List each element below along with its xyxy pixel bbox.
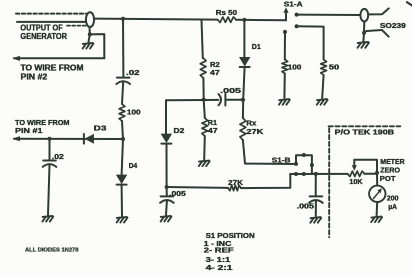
switch S1-A wiper arm: [285, 12, 287, 20]
wire - cap line right: [225, 99, 244, 101]
boundary dashed box top: [329, 125, 401, 127]
wire - main top rail left: [94, 19, 218, 20]
wire - D1 top lead: [243, 20, 245, 57]
label 100 (R3): [127, 110, 141, 117]
resistor Rx 27K: [240, 118, 246, 140]
label 50 (R5): [329, 64, 339, 71]
node meter rail dot c: [314, 172, 318, 176]
wire - C1 to R3: [122, 82, 123, 104]
label 27K (R6): [228, 180, 243, 187]
diode D2: [161, 134, 171, 144]
svg-text:10K: 10K: [349, 179, 362, 186]
node junction cap line / D1 column: [241, 98, 245, 102]
resistor R3 100: [119, 104, 125, 121]
label D4: [129, 163, 137, 170]
wire - connector shell drop: [89, 27, 91, 34]
svg-text:4- 2:1: 4- 2:1: [206, 265, 233, 272]
wire - SO239 shell drop: [363, 22, 365, 33]
ground - R4: [279, 99, 290, 105]
label 10K: [349, 179, 362, 186]
ground - generator shell: [83, 43, 94, 49]
svg-text:.02: .02: [52, 154, 64, 161]
wire - D2 to C3 junction: [166, 144, 168, 187]
wire - C3 to ground: [165, 201, 168, 215]
svg-text:METER: METER: [380, 159, 404, 166]
wire - contact1 to SO239: [297, 14, 361, 16]
ground - R1: [199, 161, 210, 167]
label 100 (R4): [288, 64, 302, 71]
wire - Rx bottom bend to S1-B: [243, 140, 296, 164]
switch S1-B feed contact: [294, 162, 298, 166]
capacitor C5 .005: [309, 196, 323, 202]
ground - R5: [317, 99, 328, 105]
node junction D2 / C3 / 27K line: [165, 185, 169, 189]
node meter rail dot a: [294, 172, 298, 176]
label ALL DIODES 1N278: [25, 248, 79, 254]
svg-text:TO WIRE FROM: TO WIRE FROM: [21, 64, 84, 73]
svg-text:D2: D2: [174, 128, 185, 135]
label 47 (R2): [210, 70, 220, 77]
wire - shell to ground stub: [89, 34, 90, 42]
wire - generator output line: [17, 21, 86, 23]
arrow - pot wiper arrowhead: [352, 165, 357, 171]
wire - TO WIRE FROM PIN 2 line: [14, 57, 104, 59]
svg-text:D4: D4: [129, 163, 137, 170]
arrow - pin2 line left arrowhead: [12, 56, 20, 61]
node SO239 shell: [362, 31, 366, 35]
label 27K (Rx): [246, 129, 263, 136]
mark top-right scan tick: [407, 2, 412, 5]
label TO WIRE FROM (pin2): [21, 64, 84, 73]
node junction top rail at D1 column: [242, 18, 246, 22]
meter M1 body: [369, 186, 385, 202]
svg-text:PIN #2: PIN #2: [21, 73, 48, 82]
label R1: [208, 120, 217, 127]
ground - D4: [117, 217, 128, 223]
resistor R6 27K: [228, 185, 241, 190]
wire - Rx top lead: [242, 100, 244, 118]
resistor R1 47: [202, 118, 208, 136]
wire - D4 to ground: [121, 185, 123, 216]
switch S1-B out contact: [310, 163, 314, 167]
svg-text:P/O TEK 190B: P/O TEK 190B: [335, 130, 394, 137]
wire - 27K line left: [167, 186, 228, 189]
connector P1 generator plug: [86, 12, 94, 27]
label uA: [388, 204, 397, 211]
label PIN #2: [21, 73, 48, 82]
wire - R1 top lead: [204, 100, 205, 118]
node connector shell: [88, 32, 92, 36]
switch S1-A contact 1: [295, 13, 299, 17]
wire - R3 to pin1 junction: [122, 121, 123, 139]
svg-text:SO239: SO239: [380, 23, 406, 30]
svg-text:µA: µA: [388, 204, 397, 211]
ground - meter: [371, 217, 382, 223]
wire - coax shield dashed line: [16, 13, 86, 15]
ground - C5: [310, 217, 321, 223]
svg-text:D3: D3: [94, 125, 107, 132]
resistor R5 50: [321, 60, 327, 76]
label Rs 50: [216, 10, 237, 17]
wire - S1-B contact drop: [311, 165, 313, 174]
svg-text:Rs 50: Rs 50: [216, 10, 237, 17]
svg-text:50: 50: [329, 64, 339, 71]
svg-text:47: 47: [210, 70, 220, 77]
switch S1-B bracket: [296, 155, 312, 165]
svg-text:27K: 27K: [228, 180, 243, 187]
label D1: [252, 44, 261, 51]
label D3: [94, 125, 107, 132]
wire - C2 column upper: [49, 139, 51, 161]
label .02 (C2): [52, 154, 64, 161]
label PIN #1: [15, 126, 43, 135]
node junction pin1 / C2 column: [48, 137, 52, 141]
node junction R2/R1/.005: [202, 98, 206, 102]
svg-text:PIN #1: PIN #1: [15, 126, 43, 135]
wire - meter top lead: [376, 173, 378, 186]
wire - R2 bottom lead: [202, 78, 204, 100]
node pot output junction: [375, 171, 379, 175]
label S1-A: [284, 1, 303, 8]
svg-text:47: 47: [208, 128, 218, 135]
diode D4: [117, 175, 127, 185]
label D2: [174, 128, 185, 135]
label METER: [380, 159, 404, 166]
label OUTPUT OF: [20, 23, 62, 32]
wire - main top rail right: [236, 19, 286, 22]
wire - C3 stub: [166, 187, 168, 196]
wire - contact2 to 50 ohm: [297, 26, 324, 59]
svg-text:27K: 27K: [246, 129, 263, 136]
wire - shell to pin2 bend: [90, 34, 105, 58]
node meter rail dot b: [302, 172, 306, 176]
svg-text:S1 POSITION: S1 POSITION: [206, 233, 255, 240]
wire - C1 column upper: [122, 19, 124, 78]
svg-text:ZERO: ZERO: [380, 168, 400, 175]
svg-text:100: 100: [127, 110, 141, 117]
label P/O TEK 190B: [335, 130, 394, 137]
label GENERATOR: [20, 32, 67, 41]
label .005 (C4): [220, 88, 241, 95]
svg-text:S1-A: S1-A: [284, 1, 303, 8]
svg-text:R1: R1: [208, 120, 217, 127]
ground - C2: [42, 216, 53, 222]
switch S1-B pivot dot: [302, 153, 306, 157]
label 200: [387, 195, 399, 202]
wire - meter rail left: [290, 173, 348, 175]
label POT: [380, 176, 396, 183]
label 1 - INC: [204, 241, 232, 248]
resistor Rs 50: [218, 17, 237, 22]
label 47 (R1): [208, 128, 218, 135]
node 100-ohm tap: [283, 30, 287, 34]
wire - SO239 top prong: [368, 8, 389, 14]
connector J1 SO239 ellipse: [360, 9, 368, 22]
wire - SO239 bottom prong: [364, 30, 389, 37]
wire - 100 to ground: [283, 74, 285, 99]
wire - R2 top lead: [202, 20, 203, 58]
label ZERO: [380, 168, 400, 175]
svg-text:.005: .005: [169, 191, 186, 198]
svg-text:100: 100: [288, 64, 302, 71]
svg-text:.005: .005: [297, 204, 315, 211]
label 2- REF: [204, 248, 235, 255]
wire - 100 top lead: [284, 32, 286, 60]
resistor R4 100: [282, 60, 288, 74]
wire - meter rail right: [364, 173, 377, 175]
switch S1-A contact 2: [295, 24, 299, 28]
wire - pot wiper link: [354, 160, 377, 173]
label 3- 1:1: [206, 257, 231, 264]
node junction top rail at C1 column: [121, 17, 125, 21]
svg-text:GENERATOR: GENERATOR: [20, 32, 67, 41]
wire - 27K line right bend up: [241, 174, 290, 188]
wire - cap line left: [206, 99, 218, 101]
svg-text:3- 1:1: 3- 1:1: [206, 257, 231, 264]
capacitor C1 .02: [116, 78, 130, 84]
label .02 (C1): [126, 70, 140, 77]
capacitor C3 .005: [160, 196, 174, 202]
ground - C3: [161, 216, 172, 222]
svg-text:S1-B: S1-B: [272, 158, 291, 165]
label Rx: [246, 121, 256, 128]
arrow - pin1 line left arrowhead: [12, 136, 20, 141]
label TO WIRE FROM (pin1): [15, 118, 70, 127]
wire - meter to ground: [376, 202, 379, 216]
svg-text:ALL DIODES 1N278: ALL DIODES 1N278: [25, 248, 79, 254]
wire - R1 to ground: [203, 136, 206, 160]
diode D3: [84, 134, 94, 144]
wire - D1 to junction: [243, 67, 244, 100]
wire - C2 to ground: [48, 165, 50, 215]
wire - 50 to ground: [322, 75, 323, 98]
capacitor C4 .005 horizontal: [219, 94, 226, 106]
svg-text:R2: R2: [210, 62, 220, 69]
boundary dashed box left: [328, 128, 330, 237]
svg-text:D1: D1: [252, 44, 261, 51]
wire - short dashed shield stub: [67, 25, 87, 27]
resistor R2 47: [200, 58, 206, 78]
resistor R7 10K pot: [348, 171, 365, 176]
wire - C5 to ground: [315, 201, 317, 216]
ground - SO239: [358, 42, 369, 48]
label S1-B: [272, 158, 291, 165]
svg-text:.005: .005: [220, 88, 241, 95]
label S1 POSITION: [206, 233, 255, 240]
label .005 (C5): [297, 204, 315, 211]
svg-text:.02: .02: [126, 70, 140, 77]
wire - D2 column top corner: [166, 100, 206, 134]
svg-text:POT: POT: [380, 176, 396, 183]
svg-text:2- REF: 2- REF: [204, 248, 235, 255]
wire - TO WIRE FROM PIN 1 line: [14, 138, 123, 140]
wire - C5 stub: [315, 174, 317, 196]
svg-text:200: 200: [387, 195, 399, 202]
label .005 (C3): [169, 191, 186, 198]
label 4- 2:1: [206, 265, 233, 272]
node junction pin1 rail / D4 column: [121, 137, 125, 141]
arrow - S1-A wiper arrowhead: [283, 7, 288, 13]
diode D1: [240, 57, 250, 67]
label R2: [210, 62, 220, 69]
wire - D4 column upper: [122, 139, 123, 175]
wire - SO239 to ground: [362, 33, 365, 41]
label SO239: [380, 23, 406, 30]
svg-text:Rx: Rx: [246, 121, 256, 128]
capacitor C2 .02: [43, 161, 57, 167]
meter M1 needle: [373, 188, 382, 198]
